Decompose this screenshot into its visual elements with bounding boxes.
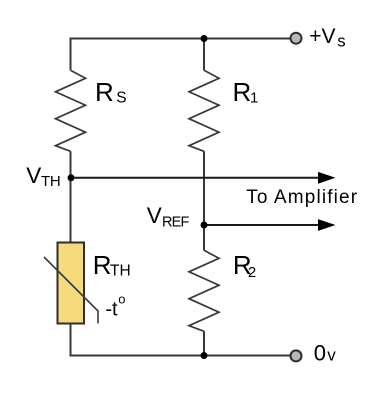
resistor R1 zigzag xyxy=(189,70,219,151)
wire left vertical middle xyxy=(70,151,72,242)
resistor RS zigzag xyxy=(56,70,86,151)
thermistor diagonal xyxy=(44,257,98,324)
svg-text:REF: REF xyxy=(162,215,190,231)
terminal 0v xyxy=(291,350,302,361)
thermistor RTH body xyxy=(58,243,85,324)
node VTH junction xyxy=(68,174,75,181)
svg-text:R: R xyxy=(93,250,112,280)
svg-text:s: s xyxy=(337,33,345,51)
resistor R2 zigzag xyxy=(189,250,219,331)
wire right vertical upper xyxy=(203,38,205,71)
wire right vertical lower xyxy=(203,331,205,356)
svg-text:+V: +V xyxy=(309,25,335,48)
svg-text:v: v xyxy=(327,346,336,365)
wire left vertical upper xyxy=(70,38,72,71)
svg-text:TH: TH xyxy=(41,173,60,190)
wire right vertical middle xyxy=(203,151,205,250)
svg-text:0: 0 xyxy=(314,341,326,366)
svg-text:S: S xyxy=(116,89,126,106)
svg-text:To Amplifier: To Amplifier xyxy=(246,187,358,208)
svg-text:-t: -t xyxy=(105,299,118,321)
wire top rail xyxy=(71,38,291,40)
svg-text:o: o xyxy=(118,292,125,307)
svg-text:R: R xyxy=(233,77,252,107)
wire VREF to amplifier xyxy=(204,224,319,226)
svg-text:V: V xyxy=(26,163,41,188)
wire left vertical lower xyxy=(70,324,72,357)
node bottom junction xyxy=(201,352,208,359)
node top junction xyxy=(201,35,208,42)
wire bottom rail xyxy=(71,355,291,357)
arrowhead to amplifier xyxy=(318,172,336,184)
svg-text:TH: TH xyxy=(110,263,131,280)
svg-text:2: 2 xyxy=(248,264,256,281)
node VREF junction xyxy=(201,222,208,229)
svg-text:R: R xyxy=(95,77,114,107)
svg-text:1: 1 xyxy=(250,90,258,107)
wire VTH to amplifier xyxy=(71,177,319,179)
arrowhead VREF xyxy=(318,219,336,231)
terminal +Vs xyxy=(291,33,302,44)
svg-text:V: V xyxy=(147,203,162,228)
